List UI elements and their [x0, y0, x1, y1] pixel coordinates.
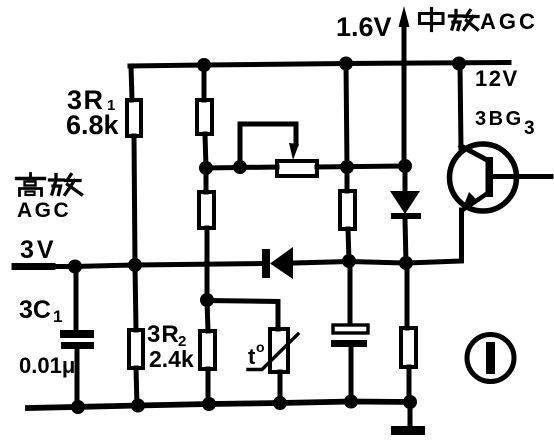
svg-text:AGC: AGC: [17, 199, 71, 222]
node junction 3C1 tap: [68, 260, 82, 274]
node junction x204 on top rail: [197, 58, 211, 72]
wire thermistor to bottom rail: [278, 372, 283, 403]
node junction x347 on top rail: [339, 57, 353, 71]
wire 3V row: [75, 264, 262, 267]
wire junction down to lower resistor: [207, 300, 208, 331]
wire stub to ground: [408, 402, 413, 427]
wire R2 to bottom rail: [136, 368, 137, 406]
node junction rheostat tap: [233, 160, 247, 174]
wire 3V row to R2: [135, 265, 136, 330]
wire resistor to lower junction (crossing 3V row): [205, 228, 210, 300]
wire resistor to mid row: [205, 134, 206, 168]
rheostat wiper arrow: [289, 143, 299, 160]
wire resistor to 3V row: [348, 229, 349, 261]
svg-text:o: o: [256, 339, 265, 355]
diode D2 vertical (anode top): [390, 191, 420, 214]
svg-text:3V: 3V: [20, 236, 57, 264]
wire 3C1 top: [74, 267, 79, 331]
resistor x408: [401, 328, 416, 367]
wire mid row: [206, 167, 277, 168]
node junction 3C1 bottom: [71, 400, 85, 414]
wire emitter down and to 3V row: [406, 210, 462, 263]
node junction capacitor bottom: [344, 395, 358, 409]
wire x406 down to resistor: [405, 263, 410, 328]
transistor base lead: [493, 174, 551, 179]
svg-text:12V: 12V: [475, 66, 519, 91]
svg-text:0.01μ: 0.01μ: [19, 353, 75, 378]
wire resistor to bottom rail: [206, 369, 211, 404]
wire 3V row right of diode: [293, 262, 406, 264]
svg-text:t: t: [248, 344, 256, 369]
resistor R1: [127, 100, 141, 136]
rheostat body: [277, 161, 317, 176]
diode D1 horizontal pointing left: [262, 249, 270, 278]
wire x347 mid row to resistor: [345, 167, 350, 191]
wire resistor to bottom rail: [407, 367, 412, 402]
svg-text:3C: 3C: [19, 296, 51, 324]
capacitor 3C1: [60, 330, 94, 338]
node junction mid row left: [199, 161, 213, 175]
wire mid row junction down: [204, 168, 209, 192]
svg-text:3: 3: [524, 118, 535, 139]
svg-text:6.8k: 6.8k: [66, 110, 120, 140]
arrow 1.6V up: [399, 6, 410, 27]
wire thermistor branch horizontal: [207, 301, 278, 330]
label CJK 放 (left): [50, 175, 82, 195]
svg-text:3R: 3R: [147, 321, 180, 348]
label CJK 放 (top): [450, 11, 479, 30]
wire R1 to 3V row: [134, 136, 135, 265]
wire x349 down to capacitor: [348, 261, 353, 324]
node junction x135 on 3V row: [128, 258, 142, 272]
capacitor electrolytic top plate: [333, 325, 368, 333]
node junction x349 on 3V row: [342, 254, 356, 268]
transistor 3BG3: [450, 144, 517, 211]
wire left vertical upper (top rail to R1): [131, 66, 132, 100]
thermistor body: [270, 329, 288, 372]
resistor lower-middle: [200, 331, 215, 369]
capacitor electrolytic bottom plate: [331, 340, 367, 347]
label 中放AGC (drawn CJK 中): [420, 9, 444, 31]
node junction x207: [200, 293, 214, 307]
wire x347 rail to mid row: [346, 64, 347, 168]
transistor emitter with arrow: [464, 193, 488, 209]
label 高 (drawn CJK): [17, 174, 45, 196]
resistor R2 left body: [129, 330, 143, 368]
node junction R2 bottom: [131, 399, 145, 413]
figure number circled 1: [467, 335, 514, 382]
wire top rail: [130, 63, 509, 67]
wire mid row right of rheostat: [317, 166, 405, 167]
svg-text:3BG: 3BG: [475, 108, 524, 130]
wire second vertical (rail to resistor): [202, 65, 207, 100]
svg-text:1.6V: 1.6V: [336, 12, 392, 42]
node junction x347 mid row: [340, 160, 354, 174]
resistor mid-left: [199, 192, 214, 228]
svg-text:AGC: AGC: [480, 9, 538, 34]
node junction x459 on top rail: [452, 57, 466, 71]
thermistor diagonal: [248, 334, 298, 370]
wire capacitor to bottom rail: [349, 347, 354, 402]
wire 3C1 bottom: [75, 349, 80, 407]
node junction x405 mid row: [398, 159, 412, 173]
wire diode to 3V row: [405, 219, 406, 263]
node junction x406 on 3V row: [399, 256, 413, 270]
svg-text:1: 1: [53, 307, 62, 326]
wire diode branch below mid row: [403, 166, 408, 192]
resistor x347: [340, 191, 355, 229]
wire 1.6V supply line: [402, 24, 407, 166]
wire rheostat loop: [240, 124, 296, 167]
ground: [391, 426, 425, 435]
node junction thermistor bottom: [273, 396, 287, 410]
wire bottom rail: [28, 402, 410, 409]
node junction bottom rail right end: [403, 395, 417, 409]
svg-text:2.4k: 2.4k: [149, 346, 194, 372]
wire 3V row with arrow: [15, 263, 52, 270]
node junction x209 bottom: [202, 397, 216, 411]
resistor upper-middle: [197, 100, 212, 134]
wire collector from rail: [460, 64, 461, 151]
